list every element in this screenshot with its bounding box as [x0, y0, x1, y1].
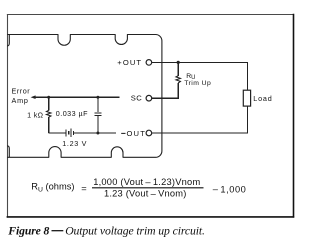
svg-text:1.23 (Vout – Vnom): 1.23 (Vout – Vnom) — [104, 189, 186, 199]
svg-text:SC: SC — [131, 94, 142, 103]
svg-text:RU (ohms): RU (ohms) — [31, 182, 74, 194]
svg-text:+OUT: +OUT — [117, 58, 142, 67]
svg-text:1,000 (Vout – 1.23)Vnom: 1,000 (Vout – 1.23)Vnom — [93, 177, 200, 187]
svg-text:1.23 V: 1.23 V — [62, 139, 87, 148]
svg-text:OUT: OUT — [127, 129, 146, 138]
svg-text:0.033 µF: 0.033 µF — [56, 109, 88, 118]
svg-text:Trim Up: Trim Up — [184, 80, 211, 87]
svg-text:Figure 8Output voltage trim up: Figure 8Output voltage trim up circuit. — [7, 224, 205, 237]
svg-text:Error: Error — [12, 87, 31, 96]
svg-text:=: = — [81, 184, 86, 194]
svg-text:1,000: 1,000 — [220, 185, 246, 195]
svg-text:Amp: Amp — [12, 96, 29, 105]
svg-text:Load: Load — [253, 94, 272, 103]
svg-text:1 kΩ: 1 kΩ — [27, 110, 43, 119]
svg-text:–: – — [213, 184, 219, 194]
